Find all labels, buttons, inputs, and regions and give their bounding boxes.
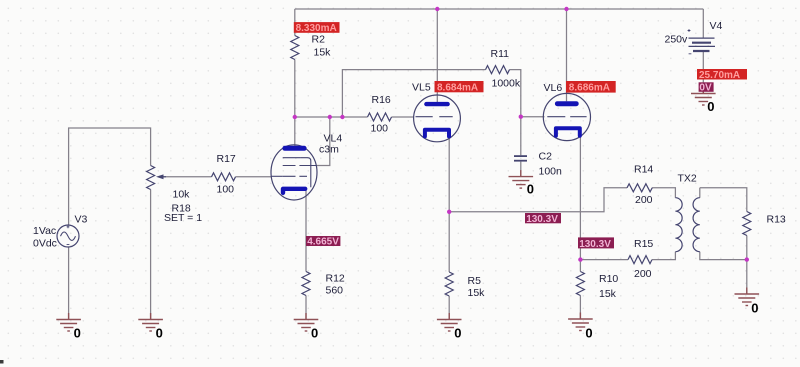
svg-text:25.70mA: 25.70mA [699, 70, 740, 81]
svg-text:100: 100 [217, 184, 235, 196]
svg-text:TX2: TX2 [678, 173, 697, 185]
svg-text:VL5: VL5 [412, 82, 431, 94]
svg-text:R14: R14 [634, 164, 653, 176]
svg-text:100n: 100n [539, 166, 563, 178]
svg-text:15k: 15k [314, 47, 332, 59]
svg-text:R17: R17 [217, 153, 236, 165]
svg-text:R16: R16 [372, 94, 391, 106]
svg-text:VL6: VL6 [544, 82, 563, 94]
svg-text:0: 0 [527, 182, 534, 197]
svg-text:C2: C2 [539, 151, 553, 163]
svg-text:0: 0 [74, 326, 81, 341]
svg-text:0: 0 [454, 326, 461, 341]
svg-text:0: 0 [311, 326, 318, 341]
svg-text:V3: V3 [75, 214, 88, 226]
svg-text:560: 560 [326, 285, 344, 297]
svg-text:8.684mA: 8.684mA [437, 82, 478, 93]
svg-text:200: 200 [634, 268, 652, 280]
svg-text:R10: R10 [599, 273, 618, 285]
svg-text:0: 0 [585, 326, 592, 341]
svg-text:SET = 1: SET = 1 [164, 212, 202, 224]
svg-text:250v: 250v [665, 34, 689, 46]
svg-text:8.330mA: 8.330mA [296, 23, 337, 34]
svg-text:15k: 15k [468, 287, 486, 299]
svg-text:1Vac: 1Vac [33, 225, 56, 237]
svg-text:R2: R2 [312, 34, 326, 46]
svg-text:1000k: 1000k [492, 78, 521, 90]
svg-text:0: 0 [751, 301, 758, 316]
svg-text:R5: R5 [468, 275, 482, 287]
svg-text:V4: V4 [710, 20, 723, 32]
svg-text:15k: 15k [599, 288, 617, 300]
svg-text:R13: R13 [767, 214, 786, 226]
svg-text:0: 0 [707, 99, 714, 114]
svg-text:100: 100 [371, 123, 389, 135]
svg-text:c3m: c3m [319, 144, 339, 156]
svg-text:130.3V: 130.3V [579, 239, 611, 250]
svg-text:4.665V: 4.665V [307, 237, 339, 248]
svg-text:R11: R11 [491, 48, 510, 60]
svg-text:R15: R15 [634, 238, 653, 250]
svg-text:0: 0 [156, 326, 163, 341]
svg-text:10k: 10k [173, 189, 191, 201]
svg-text:R12: R12 [326, 273, 345, 285]
svg-text:8.686mA: 8.686mA [569, 83, 610, 94]
svg-text:0Vdc: 0Vdc [33, 238, 57, 250]
svg-text:200: 200 [635, 194, 653, 206]
svg-text:130.3V: 130.3V [526, 214, 558, 225]
svg-text:0V: 0V [699, 82, 712, 93]
